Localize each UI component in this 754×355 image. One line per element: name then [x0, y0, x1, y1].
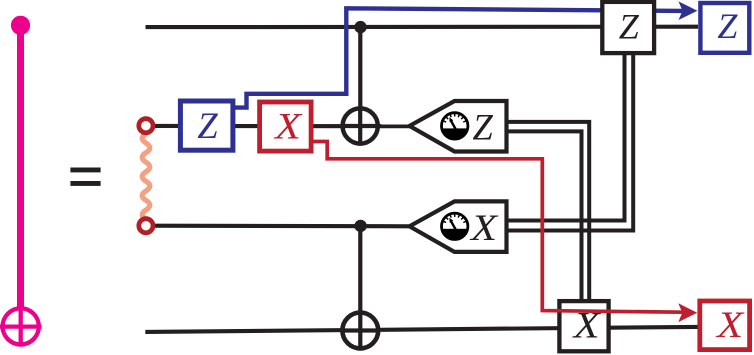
svg-text:Z: Z: [472, 106, 493, 147]
svg-text:Z: Z: [619, 6, 640, 46]
svg-text:X: X: [273, 105, 303, 146]
svg-text:X: X: [715, 304, 745, 345]
svg-text:X: X: [469, 207, 499, 248]
svg-text:Z: Z: [197, 105, 218, 146]
svg-text:Z: Z: [717, 6, 738, 46]
